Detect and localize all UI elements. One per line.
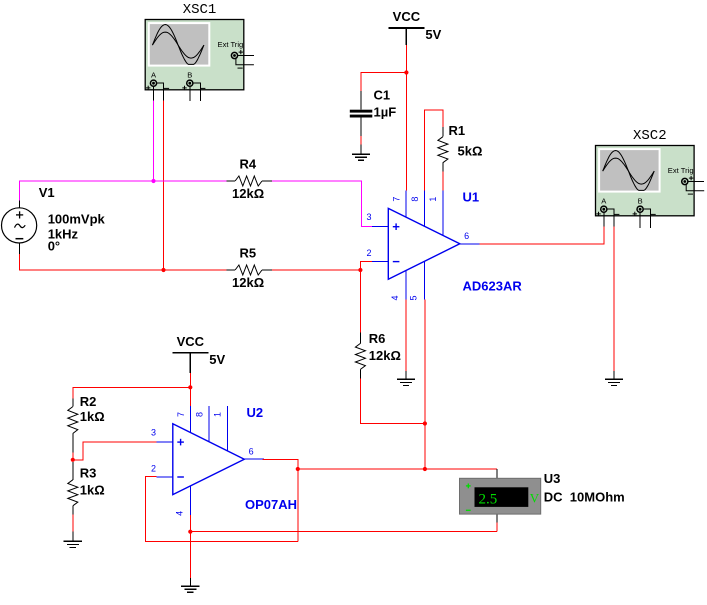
VCC supply symbol (lower) (172, 334, 225, 367)
svg-text:5kΩ: 5kΩ (458, 144, 483, 159)
wire R5 to junction (272, 269, 360, 271)
ground below C1 (352, 154, 370, 160)
svg-text:12kΩ: 12kΩ (232, 275, 264, 290)
svg-text:XSC1: XSC1 (183, 2, 217, 18)
multimeter reading 2.5 (479, 492, 498, 508)
VCC supply symbol (top) (388, 9, 441, 42)
R3 top lead (72, 462, 74, 480)
svg-text:OP07AH: OP07AH (245, 497, 297, 512)
C1 label (374, 88, 391, 103)
svg-text:R2: R2 (80, 394, 97, 409)
R6 bottom lead (359, 369, 361, 378)
svg-text:5V: 5V (209, 352, 225, 367)
U2 part OP07AH (245, 497, 297, 512)
R5 right lead (262, 269, 272, 271)
junction R5/R6/U1 pin2 (358, 268, 362, 272)
junction XSC1-A+/V1+ (magenta) (151, 179, 155, 183)
wire R4 to U1 pin3 (magenta) (272, 181, 372, 227)
U2 label (247, 405, 264, 420)
R2 value 1k (80, 409, 105, 424)
wire R3 to ground (72, 515, 74, 532)
svg-text:4: 4 (175, 511, 185, 516)
svg-text:5: 5 (408, 295, 418, 300)
svg-text:V: V (530, 491, 540, 506)
wire XSC2 A+ to U1 output (480, 227, 605, 245)
XSC1 B pin stubs (190, 83, 201, 101)
svg-text:R1: R1 (449, 123, 466, 138)
wire VCC junction to C1 (361, 73, 406, 92)
U1 pin4 ground lead (405, 371, 407, 380)
meter + lead (496, 469, 498, 478)
junction R2/R3/U2 pin3 (71, 458, 75, 462)
resistor R5 (235, 265, 262, 275)
svg-text:0°: 0° (48, 239, 60, 254)
R1 label (449, 123, 466, 138)
multimeter U3 body (460, 478, 541, 514)
VCC stem (405, 28, 407, 45)
R1 top lead (442, 127, 444, 137)
wire XSC1 A- down to V1- net (163, 101, 165, 271)
wire V1+ to R4 (magenta) (19, 181, 226, 200)
R4 value 12k (232, 186, 264, 201)
XSC1 A- pin stub (157, 83, 164, 100)
svg-text:XSC2: XSC2 (633, 128, 667, 144)
svg-text:R6: R6 (369, 331, 386, 346)
R3 bottom lead (72, 506, 74, 515)
wire junction down to R6 (359, 270, 361, 332)
R4 label (240, 157, 257, 172)
V1 top lead (18, 200, 20, 208)
junction VCC/C1 (404, 70, 408, 74)
svg-text:6: 6 (249, 447, 254, 457)
U3 label (544, 471, 561, 486)
svg-text:100mVpk: 100mVpk (48, 212, 106, 227)
R2 label (80, 394, 97, 409)
wire U1 output (480, 243, 605, 245)
svg-text:U3: U3 (544, 471, 561, 486)
multimeter + mark (466, 484, 471, 489)
wire XSC2 A- to ground (613, 227, 615, 371)
oscilloscope XSC2 (596, 128, 705, 216)
C1 ground lead (360, 145, 362, 155)
R3 ground lead (72, 532, 74, 542)
wire V1- to R5 (19, 254, 226, 270)
capacitor C1 top lead (360, 91, 362, 110)
wire U1 pin8 to R1 (424, 110, 443, 191)
junction R6/pin5 (423, 421, 427, 425)
wire pin4 junction to meter - (190, 531, 497, 533)
svg-text:VCC: VCC (393, 9, 421, 24)
wire U1 pin5 down (424, 300, 426, 424)
svg-text:1µF: 1µF (374, 105, 397, 120)
junction VCC2/R2 (188, 385, 192, 389)
svg-text:1kΩ: 1kΩ (80, 409, 105, 424)
wire R2 to junction (72, 452, 74, 460)
resistor R3 (68, 480, 78, 506)
svg-text:AD623AR: AD623AR (463, 279, 523, 294)
wire XSC1 A+ to V1+ net (magenta) (153, 101, 155, 182)
svg-text:Ext Trig: Ext Trig (218, 40, 244, 49)
junction feedback/meter+ (296, 467, 300, 471)
V1 value line1 (48, 212, 106, 227)
wire C1 to ground (360, 136, 362, 145)
svg-text:B: B (187, 71, 192, 80)
oscilloscope XSC1 (145, 2, 254, 90)
V1 value line2 (48, 227, 79, 242)
wire U2 pin4 to ground (189, 532, 191, 578)
svg-text:3: 3 (367, 212, 372, 222)
junction pin5-net/meter wire (423, 467, 427, 471)
source V1 (2, 208, 37, 243)
svg-text:V1: V1 (39, 185, 55, 200)
svg-text:B: B (638, 197, 643, 206)
wire U1 pin4 to ground (405, 300, 407, 371)
R2 bottom lead (72, 434, 74, 453)
svg-text:R3: R3 (80, 465, 97, 480)
svg-text:1: 1 (428, 197, 438, 202)
V1 label (39, 185, 55, 200)
svg-text:7: 7 (176, 412, 186, 417)
wire R6 to U1 pin5 net (360, 379, 425, 424)
resistor R4 (235, 176, 262, 186)
svg-text:U1: U1 (463, 190, 480, 205)
svg-text:C1: C1 (374, 88, 391, 103)
XSC2 B pin stubs (640, 209, 651, 228)
svg-text:1kΩ: 1kΩ (80, 483, 105, 498)
R3 label (80, 465, 97, 480)
XSC1 A+ pin stub (153, 87, 155, 101)
XSC2 A- ground lead (613, 371, 615, 380)
wire U2 output to feedback (262, 460, 297, 542)
svg-text:12kΩ: 12kΩ (369, 348, 401, 363)
svg-text:7: 7 (391, 197, 401, 202)
R1 value 5k (458, 144, 483, 159)
svg-text:DC 10MOhm: DC 10MOhm (544, 490, 625, 505)
svg-text:U2: U2 (247, 405, 264, 420)
R3 value 1k (80, 483, 105, 498)
wire U2 pin2 feedback (145, 477, 297, 542)
ground below U2 (181, 586, 199, 592)
svg-text:12kΩ: 12kΩ (232, 186, 264, 201)
R6 label (369, 331, 386, 346)
resistor R1 (438, 137, 448, 163)
capacitor C1 bottom lead (360, 118, 362, 137)
U1 part AD623AR (463, 279, 523, 294)
svg-text:3: 3 (151, 428, 156, 438)
U3 setting DC 10MOhm (544, 490, 625, 505)
R2 top lead (72, 399, 74, 407)
R4 left lead (227, 180, 236, 182)
op-amp U1 (367, 191, 480, 301)
V1 bottom lead (18, 243, 20, 254)
R6 value 12k (369, 348, 401, 363)
wire junction to U2 pin3 (73, 442, 157, 460)
junction U2 pin4/meter- (188, 530, 192, 534)
resistor R2 (68, 407, 78, 434)
capacitor C1 (350, 110, 373, 118)
R5 left lead (227, 269, 236, 271)
svg-text:2: 2 (151, 464, 156, 474)
R5 value 12k (232, 275, 264, 290)
C1 value 1uF (374, 105, 397, 120)
U2 ground lead (189, 578, 191, 586)
wire pin5 junction to meter net (424, 424, 426, 470)
wire feedback junction to meter + (298, 468, 497, 470)
junction XSC1-A-/V1- (161, 268, 165, 272)
svg-text:VCC: VCC (177, 334, 205, 349)
XSC2 A+ pin stub (603, 213, 605, 227)
VCC lower stem (189, 353, 191, 373)
R6 top lead (359, 332, 361, 343)
svg-text:R4: R4 (240, 157, 257, 172)
resistor R6 (355, 343, 365, 369)
wire VCC2 junction to R2 (73, 387, 191, 398)
svg-text:2: 2 (367, 248, 372, 258)
svg-text:1: 1 (213, 412, 223, 417)
ground below U1 (397, 379, 415, 385)
svg-text:R5: R5 (240, 246, 257, 261)
svg-text:Ext Trig: Ext Trig (668, 166, 694, 175)
R4 right lead (262, 180, 272, 182)
wire VCC2 to U2 pin7 (189, 373, 191, 407)
R5 label (240, 246, 257, 261)
svg-text:8: 8 (194, 412, 204, 417)
wire junction to U1 pin2 (360, 262, 371, 270)
ground below XSC2 (605, 379, 623, 385)
op-amp U2 (151, 406, 264, 516)
svg-text:8: 8 (410, 197, 420, 202)
wire R1 to U1 pin1 (442, 171, 444, 190)
V1 value line3 (48, 239, 60, 254)
wire VCC to U1 pin7 (405, 45, 407, 191)
meter - lead (496, 514, 498, 532)
svg-text:5V: 5V (425, 27, 441, 42)
ground below R3 (64, 541, 82, 547)
svg-text:6: 6 (464, 231, 469, 241)
svg-text:4: 4 (390, 295, 400, 300)
U1 label (463, 190, 480, 205)
svg-text:2.5: 2.5 (479, 492, 498, 508)
multimeter V unit (530, 491, 540, 506)
wire U2 pin4 red (189, 515, 191, 532)
R1 bottom lead (442, 163, 444, 172)
XSC2 A- pin stub (608, 209, 615, 226)
multimeter - mark (466, 509, 471, 511)
multimeter display (475, 487, 529, 507)
